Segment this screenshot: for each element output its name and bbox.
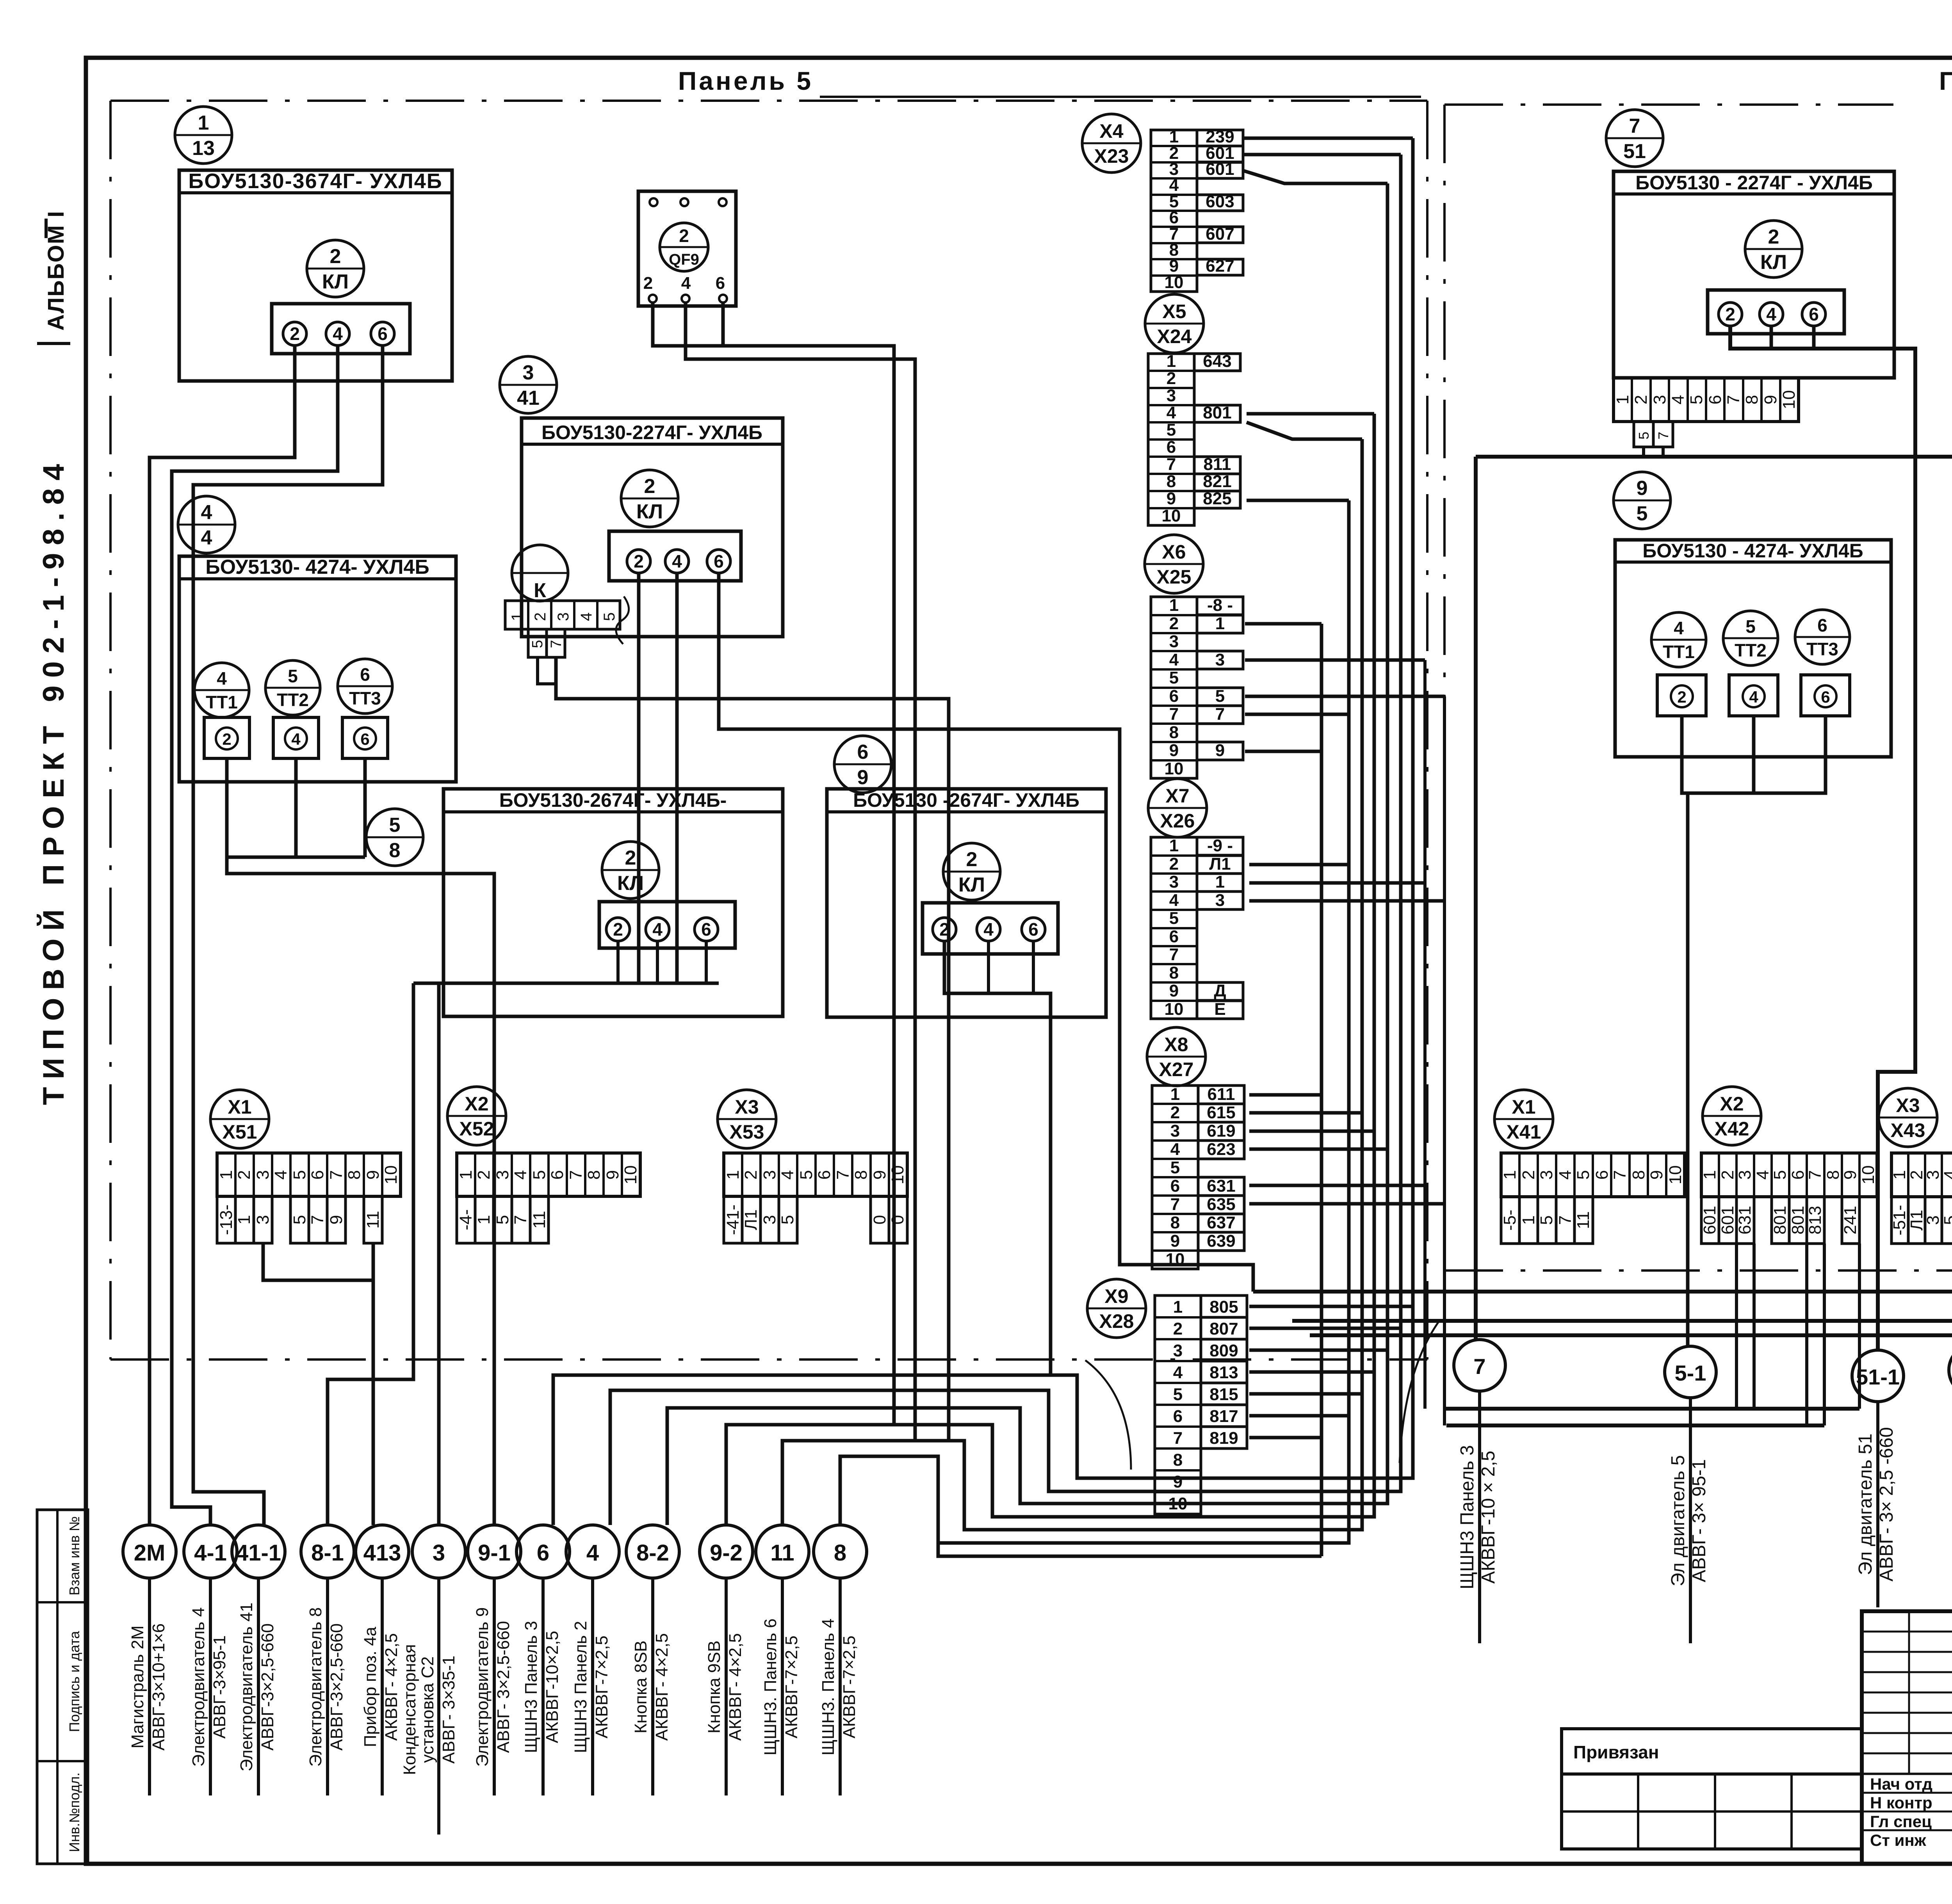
svg-text:4: 4 [1169, 650, 1179, 669]
svg-text:8: 8 [1169, 963, 1179, 982]
svg-text:X2: X2 [465, 1093, 488, 1115]
svg-text:4: 4 [586, 1540, 599, 1566]
cable circle 41-1 [232, 1525, 285, 1578]
svg-text:10: 10 [1666, 1166, 1685, 1185]
svg-text:9: 9 [1761, 395, 1780, 404]
svg-text:6: 6 [360, 664, 370, 685]
block 1/13 БОУ5130-3674Г-УХЛ4Б [175, 107, 232, 164]
svg-text:9: 9 [363, 1170, 383, 1180]
svg-text:1: 1 [198, 112, 209, 134]
svg-text:X3: X3 [1896, 1094, 1920, 1116]
svg-text:2: 2 [939, 919, 949, 940]
svg-text:2: 2 [1725, 304, 1735, 324]
svg-text:1: 1 [1519, 1215, 1538, 1225]
svg-text:3: 3 [523, 361, 534, 384]
bus from block 5 [413, 982, 719, 985]
svg-text:8: 8 [1629, 1170, 1648, 1180]
cable circle 51-1 [1852, 1350, 1904, 1402]
bus wire C y3309 [1253, 1290, 1952, 1294]
svg-text:2: 2 [1718, 1170, 1737, 1180]
svg-text:7: 7 [1169, 945, 1179, 964]
svg-text:АВВГ- 3×35-1: АВВГ- 3×35-1 [439, 1656, 458, 1764]
wires under X51 to cable circle 413 [263, 1243, 373, 1280]
svg-text:4: 4 [1749, 688, 1758, 706]
svg-text:10: 10 [1859, 1166, 1878, 1185]
cable circle 4-1 [184, 1525, 237, 1578]
cable circle 11 [1949, 1344, 1952, 1396]
svg-text:2: 2 [474, 1170, 493, 1180]
svg-text:6: 6 [1169, 927, 1179, 946]
svg-text:QF9: QF9 [669, 251, 699, 268]
wires under X42 [1735, 1244, 1738, 1409]
connector X5/X24 [1145, 294, 1204, 353]
wire to cable circle 3 [437, 983, 441, 1525]
svg-text:Л1: Л1 [741, 1209, 760, 1230]
svg-text:X28: X28 [1099, 1310, 1134, 1332]
svg-text:8: 8 [345, 1170, 364, 1180]
svg-text:4: 4 [1669, 395, 1688, 404]
svg-text:7: 7 [1629, 115, 1640, 137]
cable circle 413 [356, 1525, 409, 1578]
svg-text:1: 1 [474, 1215, 493, 1224]
svg-text:2: 2 [290, 324, 300, 344]
svg-text:7: 7 [511, 1215, 530, 1224]
svg-text:Взам инв №: Взам инв № [66, 1516, 82, 1595]
svg-text:ТТ1: ТТ1 [1663, 642, 1695, 662]
curved leader arc left [1085, 1360, 1131, 1470]
svg-text:ТТ2: ТТ2 [1735, 640, 1767, 660]
svg-text:6: 6 [1167, 438, 1176, 457]
svg-text:2: 2 [966, 848, 978, 871]
svg-text:7: 7 [1173, 1429, 1183, 1448]
terminal strip X2/X52 [447, 1087, 506, 1145]
svg-text:X42: X42 [1715, 1118, 1749, 1140]
staircase wire to circle 11 [782, 1327, 1362, 1530]
svg-text:3: 3 [760, 1170, 779, 1180]
block 3/41 БОУ5130-2274Г-УХЛ4Б [500, 356, 557, 413]
svg-text:8: 8 [1169, 723, 1179, 742]
svg-text:6: 6 [857, 741, 869, 763]
cable circle 2М [123, 1525, 176, 1578]
svg-text:ТТ3: ТТ3 [349, 688, 381, 708]
cable circle 7 [1454, 1340, 1505, 1391]
svg-text:4: 4 [1169, 891, 1179, 910]
Панель 5 dash-dot border [109, 101, 112, 1359]
svg-text:5: 5 [1745, 616, 1756, 637]
CT 4/ТТ1 of block 9 [1651, 612, 1706, 667]
svg-text:0: 0 [870, 1215, 889, 1224]
connector X7/X26 [1148, 779, 1207, 837]
svg-text:ЩШН3 Панель 3: ЩШН3 Панель 3 [1457, 1445, 1478, 1589]
svg-text:9: 9 [1215, 741, 1225, 760]
svg-text:7: 7 [1724, 395, 1743, 404]
svg-text:8: 8 [584, 1170, 604, 1180]
svg-text:1: 1 [1173, 1297, 1183, 1317]
svg-text:-51-: -51- [1890, 1205, 1909, 1235]
cable label 5-1 [1689, 1398, 1692, 1643]
terminal strip X1/X41 [1494, 1090, 1553, 1148]
svg-text:10: 10 [1162, 506, 1181, 525]
svg-text:АВВГ- 3× 95-1: АВВГ- 3× 95-1 [1689, 1459, 1710, 1582]
QF9 designator [660, 223, 708, 271]
staircase wire to circle 8-2 [667, 1327, 1387, 1525]
connector X8/X27 [1147, 1027, 1206, 1086]
svg-text:БОУ5130-3674Г- УХЛ4Б: БОУ5130-3674Г- УХЛ4Б [188, 169, 442, 193]
svg-text:8: 8 [834, 1540, 846, 1566]
CT squares of block 9 [1657, 675, 1706, 716]
svg-text:4: 4 [578, 612, 595, 621]
svg-text:2: 2 [1169, 854, 1179, 874]
svg-text:X3: X3 [735, 1096, 759, 1118]
block 5/8 БОУ5130-2674Г-УХЛ4Б [366, 809, 423, 866]
svg-text:БОУ5130 - 2274Г - УХЛ4Б: БОУ5130 - 2274Г - УХЛ4Б [1635, 172, 1873, 194]
cable label 8 [839, 1578, 842, 1795]
svg-text:ТИПОВОЙ ПРОЕКТ 902-1-98.84: ТИПОВОЙ ПРОЕКТ 902-1-98.84 [37, 456, 70, 1105]
svg-text:5: 5 [1170, 1158, 1180, 1177]
svg-text:825: 825 [1203, 489, 1231, 508]
cable label 2М [148, 1578, 151, 1795]
svg-text:4: 4 [1766, 304, 1776, 324]
svg-text:АКВВГ-10×2,5: АКВВГ-10×2,5 [543, 1631, 562, 1743]
svg-text:4: 4 [333, 324, 343, 344]
svg-text:11: 11 [1574, 1211, 1593, 1229]
svg-text:8: 8 [1742, 395, 1761, 404]
svg-text:2: 2 [1631, 395, 1651, 404]
svg-text:10: 10 [1166, 1250, 1185, 1269]
wires from block 4 CT squares [225, 758, 229, 857]
svg-text:10: 10 [381, 1166, 401, 1185]
cable label 9-2 [725, 1578, 728, 1795]
terminal strip X1/X51 [210, 1090, 269, 1148]
svg-text:X51: X51 [223, 1121, 257, 1143]
svg-text:619: 619 [1207, 1121, 1235, 1141]
wire bus to cable circle 7 [1474, 457, 1478, 1340]
svg-text:X5: X5 [1162, 301, 1186, 322]
svg-text:10: 10 [1165, 1000, 1184, 1019]
svg-text:5: 5 [290, 1170, 309, 1180]
connector stub wires X25 [1245, 622, 1322, 626]
svg-text:821: 821 [1203, 472, 1231, 491]
svg-text:Эл двигатель 51: Эл двигатель 51 [1855, 1434, 1876, 1575]
svg-text:Гл спец: Гл спец [1870, 1812, 1932, 1831]
svg-text:9-1: 9-1 [478, 1540, 511, 1566]
title block frame [1862, 1611, 1952, 1864]
svg-text:603: 603 [1206, 192, 1234, 211]
svg-text:X7: X7 [1165, 785, 1189, 807]
svg-text:Ст инж: Ст инж [1870, 1831, 1927, 1849]
svg-text:4: 4 [652, 919, 663, 940]
Панель 6 dash-dot border [1443, 105, 1446, 1271]
bus wire E y3421 [1310, 1333, 1952, 1337]
svg-text:7: 7 [1473, 1354, 1485, 1379]
svg-text:2: 2 [1677, 688, 1686, 706]
svg-text:АВВГ- 3×2,5-660: АВВГ- 3×2,5-660 [494, 1621, 513, 1753]
svg-text:АВВГ-3×10+1×6: АВВГ-3×10+1×6 [149, 1623, 168, 1751]
connector X6/X25 [1145, 535, 1203, 593]
svg-text:627: 627 [1206, 256, 1234, 276]
svg-text:2: 2 [1173, 1319, 1183, 1338]
CT 4/ТТ1 [194, 663, 249, 717]
svg-text:1: 1 [1700, 1170, 1719, 1180]
svg-text:2: 2 [1768, 226, 1779, 248]
svg-text:2М: 2М [134, 1540, 166, 1566]
short verticals to buses [1423, 660, 1427, 1409]
cable circle 9-1 [468, 1525, 521, 1578]
upper small columns [1908, 1611, 1910, 1774]
svg-text:Нач отд: Нач отд [1870, 1775, 1932, 1793]
svg-text:2: 2 [1167, 369, 1176, 388]
svg-text:ТТ1: ТТ1 [206, 692, 238, 712]
svg-text:801: 801 [1770, 1206, 1790, 1234]
contactor 2/КЛ of block 3 [621, 470, 678, 527]
svg-text:809: 809 [1209, 1341, 1238, 1360]
svg-text:41: 41 [517, 387, 540, 409]
svg-text:2: 2 [1519, 1170, 1538, 1180]
svg-text:9: 9 [1170, 1231, 1180, 1251]
svg-text:607: 607 [1206, 224, 1234, 244]
svg-text:7: 7 [1167, 455, 1176, 474]
svg-text:Электродвигатель 41: Электродвигатель 41 [237, 1603, 256, 1772]
svg-text:2: 2 [613, 919, 623, 940]
svg-text:3: 3 [433, 1540, 445, 1566]
svg-text:6: 6 [1809, 304, 1819, 324]
svg-text:615: 615 [1207, 1103, 1235, 1122]
block 6/9 БОУ5130-2674Г-УХЛ4Б [834, 736, 891, 793]
svg-text:-8 -: -8 - [1207, 596, 1233, 615]
block 7/51 БОУ5130-2274Г-УХЛ4Б [1606, 110, 1663, 167]
svg-text:8: 8 [389, 839, 401, 862]
svg-text:4: 4 [983, 919, 994, 940]
terminal strip X2/X42 [1703, 1087, 1761, 1145]
svg-text:Эл двигатель 5: Эл двигатель 5 [1668, 1455, 1688, 1586]
svg-text:601: 601 [1718, 1206, 1737, 1234]
svg-text:5: 5 [1173, 1385, 1183, 1404]
svg-text:6: 6 [1028, 919, 1038, 940]
svg-text:АВВГ- 3× 2,5 -660: АВВГ- 3× 2,5 -660 [1876, 1427, 1897, 1582]
svg-text:811: 811 [1204, 455, 1231, 474]
svg-text:5: 5 [290, 1215, 309, 1224]
svg-text:7: 7 [1655, 432, 1671, 440]
svg-text:X6: X6 [1162, 541, 1186, 563]
svg-text:413: 413 [363, 1540, 401, 1566]
bus 5/7 between blocks 7 and 8 [1476, 455, 1952, 459]
connector stub wires X24 [1247, 412, 1374, 416]
svg-text:5-1: 5-1 [1675, 1361, 1706, 1385]
svg-text:3: 3 [253, 1215, 272, 1224]
svg-text:БОУ5130- 4274- УХЛ4Б: БОУ5130- 4274- УХЛ4Б [205, 556, 429, 578]
CT 6/ТТ3 [338, 659, 392, 714]
mid column vertical bundle [1411, 138, 1415, 1478]
svg-text:3: 3 [1215, 891, 1225, 910]
svg-text:6: 6 [1592, 1170, 1612, 1180]
svg-text:8-2: 8-2 [636, 1540, 669, 1566]
wires from QF9 pins [653, 303, 894, 1425]
svg-text:Кнопка 8SВ: Кнопка 8SВ [631, 1641, 650, 1733]
cable circle 8-2 [626, 1525, 679, 1578]
svg-text:6: 6 [1817, 615, 1827, 635]
svg-text:5: 5 [1637, 502, 1648, 525]
sub boxes 5 7 of block 7 [1634, 422, 1653, 447]
svg-text:4: 4 [681, 274, 691, 293]
svg-text:1: 1 [1500, 1170, 1519, 1180]
svg-text:7: 7 [1215, 705, 1225, 724]
svg-text:5: 5 [389, 814, 401, 836]
svg-text:7: 7 [327, 1170, 346, 1180]
svg-text:3: 3 [1924, 1215, 1943, 1225]
svg-text:7: 7 [1610, 1170, 1630, 1180]
svg-text:ЩШН3. Панель 6: ЩШН3. Панель 6 [761, 1619, 780, 1756]
staircase wire to circle 8 [840, 1327, 1349, 1543]
svg-text:10: 10 [1165, 273, 1184, 292]
svg-text:КЛ: КЛ [636, 500, 663, 523]
svg-text:2: 2 [634, 551, 644, 571]
svg-text:801: 801 [1788, 1206, 1808, 1234]
svg-text:X52: X52 [460, 1118, 494, 1140]
svg-text:5: 5 [288, 666, 298, 686]
svg-text:9: 9 [1647, 1170, 1666, 1180]
svg-text:К: К [534, 579, 546, 602]
svg-text:6: 6 [308, 1170, 327, 1180]
svg-text:ЩШН3. Панель 4: ЩШН3. Панель 4 [819, 1619, 838, 1756]
svg-text:9: 9 [1841, 1170, 1860, 1180]
svg-text:Е: Е [1214, 1000, 1225, 1019]
svg-text:807: 807 [1209, 1319, 1238, 1338]
svg-text:3: 3 [1537, 1170, 1556, 1180]
svg-text:БОУ5130-2674Г- УХЛ4Б-: БОУ5130-2674Г- УХЛ4Б- [499, 789, 727, 811]
svg-text:8: 8 [1170, 1213, 1180, 1232]
svg-text:ЩШН3 Панель 3: ЩШН3 Панель 3 [522, 1621, 541, 1753]
connector X4/X23 [1082, 114, 1141, 173]
svg-text:805: 805 [1209, 1297, 1238, 1317]
svg-text:5: 5 [1574, 1170, 1593, 1180]
svg-text:4: 4 [1941, 1170, 1952, 1180]
svg-text:10: 10 [1779, 390, 1799, 409]
block 4/4 БОУ5130-4274-УХЛ4Б [178, 496, 235, 553]
svg-text:АКВВГ- 4×2,5: АКВВГ- 4×2,5 [652, 1633, 671, 1741]
svg-text:7: 7 [1170, 1195, 1180, 1214]
connector stub wires X27 [1249, 1093, 1322, 1097]
svg-text:-9 -: -9 - [1207, 836, 1233, 855]
svg-text:6: 6 [1821, 688, 1830, 706]
svg-text:7: 7 [1556, 1215, 1575, 1225]
svg-text:X26: X26 [1160, 810, 1195, 832]
svg-text:7: 7 [1806, 1170, 1825, 1180]
wires from block 6 terminals [944, 942, 1051, 1375]
riser to cable circle 8-1 [328, 983, 413, 1525]
svg-text:6: 6 [815, 1170, 834, 1180]
svg-text:4: 4 [271, 1170, 290, 1180]
cable circle 11 [756, 1525, 809, 1578]
svg-text:Прибор поз. 4а: Прибор поз. 4а [361, 1626, 380, 1747]
svg-text:Электродвигатель 9: Электродвигатель 9 [473, 1607, 492, 1767]
contactor 2/КЛ of block 7 [1745, 221, 1802, 278]
svg-text:-5-: -5- [1500, 1210, 1519, 1231]
svg-text:АКВВГ- 4×2,5: АКВВГ- 4×2,5 [382, 1633, 401, 1741]
svg-text:637: 637 [1207, 1213, 1235, 1232]
svg-text:3: 3 [1169, 632, 1179, 651]
connector stub wires X23 [1243, 137, 1413, 140]
contactor 2/КЛ of block 1 [307, 240, 364, 297]
svg-text:5: 5 [601, 612, 618, 621]
svg-text:6: 6 [1706, 395, 1725, 404]
cable circle 5-1 [1665, 1346, 1716, 1398]
svg-text:2: 2 [644, 475, 655, 498]
svg-text:4: 4 [1556, 1170, 1575, 1180]
svg-text:5: 5 [797, 1170, 816, 1180]
svg-text:13: 13 [192, 137, 215, 160]
wires from block 9 [1682, 716, 1826, 793]
svg-text:Магистраль 2М: Магистраль 2М [128, 1625, 147, 1748]
svg-text:6: 6 [360, 730, 369, 748]
svg-text:4: 4 [1753, 1170, 1772, 1180]
svg-text:6: 6 [548, 1170, 567, 1180]
svg-text:1: 1 [217, 1170, 236, 1180]
svg-text:1: 1 [1215, 872, 1225, 891]
svg-text:2: 2 [532, 612, 549, 621]
svg-text:8: 8 [1167, 472, 1176, 491]
cable label 8-2 [651, 1578, 654, 1795]
svg-text:5: 5 [1770, 1170, 1790, 1180]
svg-text:2: 2 [330, 245, 341, 268]
cable circle 6 [516, 1525, 570, 1578]
svg-text:2: 2 [222, 730, 231, 748]
cable label 4 [591, 1578, 594, 1795]
svg-text:Электродвигатель 4: Электродвигатель 4 [189, 1607, 208, 1767]
cable label 11 [781, 1578, 784, 1795]
svg-text:X2: X2 [1720, 1093, 1744, 1115]
svg-text:813: 813 [1806, 1206, 1825, 1234]
connector X9/X28 [1087, 1279, 1146, 1338]
svg-text:5: 5 [1941, 1215, 1952, 1225]
svg-text:7: 7 [1169, 705, 1179, 724]
svg-text:9: 9 [327, 1215, 346, 1224]
svg-text:Панель 6: Панель 6 [1939, 66, 1952, 95]
svg-text:9: 9 [1169, 741, 1179, 760]
svg-text:5: 5 [529, 640, 546, 648]
svg-text:2: 2 [235, 1170, 254, 1180]
svg-text:6: 6 [1169, 687, 1179, 706]
wires from block 5 terminals [616, 941, 620, 983]
svg-text:-13-: -13- [217, 1205, 236, 1235]
strip of block 7 [1614, 378, 1799, 422]
cable circle 4 [566, 1525, 619, 1578]
svg-text:X53: X53 [730, 1121, 764, 1143]
svg-text:Д: Д [1214, 981, 1226, 1000]
svg-text:1: 1 [1169, 596, 1179, 615]
svg-text:4: 4 [778, 1170, 797, 1180]
svg-text:4-1: 4-1 [194, 1540, 227, 1566]
svg-text:611: 611 [1208, 1085, 1235, 1104]
svg-text:6: 6 [1788, 1170, 1808, 1180]
svg-text:БОУ5130 -2674Г- УХЛ4Б: БОУ5130 -2674Г- УХЛ4Б [853, 789, 1079, 811]
svg-text:1: 1 [723, 1170, 743, 1180]
lowest bundle wire [938, 1543, 1322, 1556]
svg-text:9: 9 [857, 766, 869, 789]
cable circle 8-1 [301, 1525, 354, 1578]
wires from block 3 terminals 2 4 6 [637, 572, 641, 983]
svg-text:1: 1 [1890, 1170, 1909, 1180]
svg-text:8: 8 [851, 1170, 871, 1180]
title row lines upper left [1862, 1631, 1952, 1633]
cable label 51-1 [1876, 1402, 1879, 1607]
signature rows [1862, 1773, 1952, 1775]
staircase wire to circle 4 [610, 1327, 1401, 1525]
svg-text:51-1: 51-1 [1856, 1365, 1900, 1389]
svg-text:ТТ3: ТТ3 [1806, 639, 1838, 659]
svg-text:7: 7 [566, 1170, 586, 1180]
svg-text:9: 9 [1169, 981, 1179, 1000]
staircase wire to circle 9-2 [726, 1327, 1374, 1525]
